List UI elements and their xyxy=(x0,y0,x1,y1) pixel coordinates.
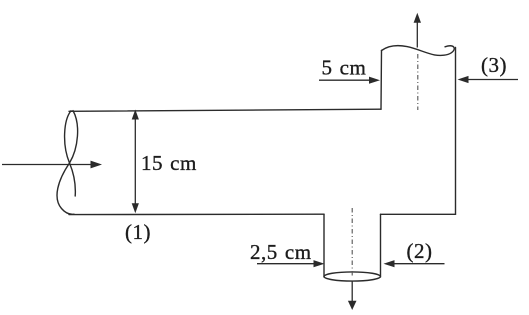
branch (2) left edge xyxy=(323,214,325,277)
svg-text:2,5 cm: 2,5 cm xyxy=(250,240,312,264)
branch (3) centerline dash-dot xyxy=(417,54,419,110)
branch (3) break wave top xyxy=(382,46,455,56)
branch (2) outflow arrow xyxy=(351,282,353,303)
branch (3) right edge and pipe right end wall xyxy=(455,48,457,215)
pipe (1) bottom edge right segment xyxy=(381,213,456,215)
svg-text:15 cm: 15 cm xyxy=(141,151,197,175)
pipe (1) left end break curve xyxy=(57,111,78,215)
pipe (1) top edge xyxy=(69,109,381,111)
arrow (2) pointing left xyxy=(394,263,445,265)
svg-text:(2): (2) xyxy=(407,239,433,263)
svg-text:(1): (1) xyxy=(125,220,151,244)
dimension arrow 15 cm (double headed) xyxy=(134,116,136,208)
branch (3) outflow arrow xyxy=(416,21,418,48)
branch (2) bottom end ellipse xyxy=(324,272,380,281)
inlet flow arrow xyxy=(2,164,93,166)
branch (2) right edge xyxy=(380,214,382,277)
svg-text:5 cm: 5 cm xyxy=(322,56,367,80)
svg-text:(3): (3) xyxy=(481,53,507,77)
dimension arrow 5 cm xyxy=(319,79,371,81)
pipe (1) left end break curve inner stroke xyxy=(65,111,76,196)
pipe (1) bottom edge left segment xyxy=(69,213,324,215)
branch (2) centerline dash-dot xyxy=(351,208,353,276)
dimension arrow 2,5 cm xyxy=(257,263,315,265)
arrow (3) pointing left xyxy=(467,79,518,81)
branch (3) left edge xyxy=(380,51,383,110)
